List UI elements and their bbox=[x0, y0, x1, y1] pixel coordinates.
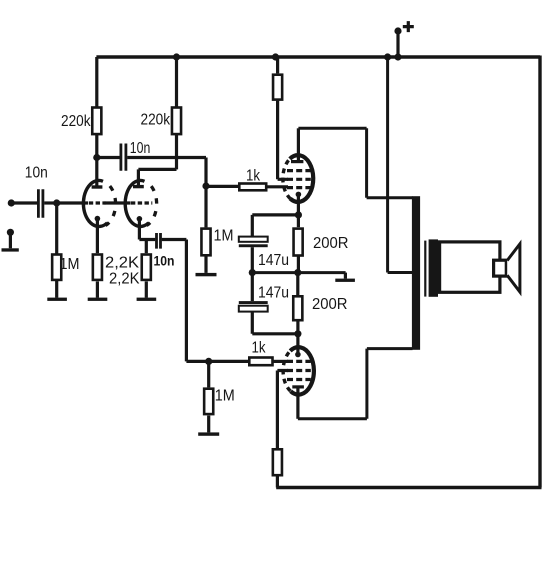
triode V1a cathode lead bbox=[96, 219, 99, 254]
resistor 200R lower cathode bbox=[296, 273, 299, 295]
triode V1b envelope dashed arc bbox=[146, 182, 157, 226]
svg-text:200R: 200R bbox=[312, 296, 348, 313]
pentode V3 g1 dashes bbox=[287, 360, 311, 363]
wire cap to grid node bbox=[44, 201, 57, 204]
wire 220k to tube2 anode bbox=[138, 169, 176, 185]
pentode V2 g2 dashes bbox=[287, 178, 311, 181]
svg-text:1M: 1M bbox=[215, 388, 235, 405]
wire B+ to transformer center tap bbox=[388, 57, 413, 273]
resistor R 220k second stage anode bbox=[175, 57, 178, 107]
wire input to cap bbox=[11, 201, 37, 204]
resistor 1M lower grid leak bbox=[207, 361, 210, 387]
wire V2 cathode to bypass cap bbox=[252, 215, 298, 237]
node tube1 anode junction bbox=[93, 154, 100, 161]
wire V3 anode to transformer bottom bbox=[298, 349, 413, 419]
pentode V3 lower envelope solid arc bbox=[290, 347, 314, 394]
resistor 2,2K cathode V1a bbox=[93, 255, 102, 280]
capacitor 10n lower coupling bbox=[157, 233, 161, 249]
svg-text:10n: 10n bbox=[154, 252, 175, 268]
triode V1a cathode dot bbox=[95, 216, 101, 222]
pentode V2 anode lead bbox=[297, 128, 300, 160]
node B+ rail junction dots bbox=[173, 53, 180, 60]
ground under 2,2K V1a bbox=[88, 298, 108, 301]
speaker LS1 cone bbox=[507, 244, 520, 292]
pentode V2 upper envelope solid arc bbox=[290, 155, 313, 202]
wire mid ground rail bbox=[252, 271, 345, 274]
svg-text:147u: 147u bbox=[258, 252, 289, 269]
wire + terminal lead bbox=[396, 30, 399, 57]
svg-text:220k: 220k bbox=[61, 113, 91, 130]
pentode V3 cathode lead bbox=[296, 334, 299, 355]
pentode V2 cathode lead bbox=[297, 194, 300, 227]
node lower grid network junction bbox=[205, 358, 212, 365]
pentode V3 anode lead bbox=[296, 389, 299, 419]
wire node to tube1 grid bbox=[57, 201, 88, 204]
capacitor C2 10n coupling top bbox=[97, 156, 120, 159]
ground under 2,2K V1b bbox=[137, 298, 157, 301]
pentode V3 g2 dashes bbox=[287, 369, 311, 372]
transformer T1 core line bbox=[424, 241, 426, 297]
capacitor 147u lower bypass bbox=[251, 273, 254, 302]
svg-text:2,2K: 2,2K bbox=[105, 255, 139, 272]
resistor 1M input grid leak bbox=[55, 203, 58, 254]
triode V1b cathode lead bbox=[138, 219, 141, 240]
node grid1 junction bbox=[53, 199, 60, 206]
ground mid rail bbox=[344, 273, 347, 279]
wire right edge B+ down bbox=[538, 56, 541, 488]
triode V1a envelope dashed arc bbox=[104, 182, 116, 226]
pentode V2 g3 dashes bbox=[287, 169, 311, 172]
node + terminal dot bbox=[394, 27, 401, 34]
ground under 1M bbox=[47, 298, 67, 301]
svg-text:147u: 147u bbox=[258, 285, 289, 302]
plus symbol bbox=[403, 21, 414, 32]
resistor R 220k first stage anode bbox=[95, 57, 98, 107]
resistor 1M upper grid leak bbox=[204, 186, 207, 227]
triode V1a envelope solid arc bbox=[83, 180, 107, 226]
svg-text:10n: 10n bbox=[25, 165, 48, 182]
pentode V3 anode bbox=[292, 385, 304, 388]
triode V1b cathode dot bbox=[137, 216, 143, 222]
resistor lower screen dropper bbox=[273, 449, 282, 475]
pentode V2 upper envelope dashed arc bbox=[283, 159, 290, 199]
wire B+ top rail bbox=[96, 55, 540, 58]
wire bottom rail bbox=[276, 486, 541, 489]
svg-text:1M: 1M bbox=[214, 227, 234, 244]
pentode V2 anode bbox=[291, 160, 303, 163]
node upper grid network junction bbox=[202, 182, 209, 189]
resistor 2,2K cathode V1b bbox=[145, 240, 148, 254]
node V2 cathode junction bbox=[295, 211, 302, 218]
node V3 cathode junction bbox=[294, 330, 301, 337]
pentode V3 lower envelope dashed arc bbox=[283, 351, 290, 391]
pentode V2 g1 dashes bbox=[287, 186, 311, 189]
resistor 1k lower grid stopper bbox=[209, 360, 249, 363]
triode V1b envelope solid arc bbox=[125, 180, 148, 226]
wire V1b cathode to cap bbox=[139, 238, 155, 241]
speaker LS1 magnet bar bbox=[429, 239, 438, 296]
wire grid link V1a-V1b bbox=[105, 201, 131, 204]
node input terminal bbox=[8, 199, 15, 206]
resistor upper screen dropper bbox=[276, 57, 279, 73]
wire V2 anode to transformer top bbox=[298, 128, 412, 198]
svg-text:2,2K: 2,2K bbox=[109, 270, 140, 287]
svg-text:220k: 220k bbox=[141, 111, 171, 128]
transformer T1 primary winding bar bbox=[412, 196, 420, 350]
svg-text:1M: 1M bbox=[60, 256, 80, 273]
pentode V2 cathode dot bbox=[296, 192, 302, 198]
ground under upper 1M bbox=[196, 273, 217, 276]
svg-text:1k: 1k bbox=[252, 340, 267, 357]
triode V1a anode bbox=[92, 185, 103, 188]
speaker LS1 body box bbox=[440, 242, 500, 292]
svg-text:1k: 1k bbox=[246, 168, 261, 185]
triode V1b anode bbox=[133, 185, 144, 188]
ground under lower 1M bbox=[198, 432, 219, 435]
pentode V3 g3 dashes bbox=[287, 378, 311, 381]
resistor 200R upper cathode bbox=[294, 229, 303, 256]
svg-text:10n: 10n bbox=[130, 140, 151, 157]
svg-text:200R: 200R bbox=[313, 235, 349, 252]
wire V3 g2 screen feed bbox=[277, 371, 288, 449]
capacitor C1 10n input bbox=[38, 189, 43, 218]
wire cap down to lower grid node bbox=[162, 240, 209, 362]
triode V1b grid dashes bbox=[131, 201, 152, 204]
triode V1a grid dashes bbox=[89, 201, 106, 204]
ground input flag bbox=[7, 229, 14, 236]
pentode V3 cathode dot bbox=[295, 352, 301, 358]
capacitor 147u upper bypass bbox=[239, 237, 268, 242]
speaker LS1 driver square bbox=[494, 260, 507, 276]
resistor 1k upper grid stopper bbox=[206, 185, 239, 188]
